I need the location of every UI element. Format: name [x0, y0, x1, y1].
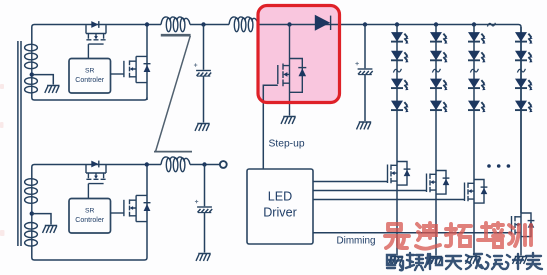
- main MOSFET Q2: [110, 56, 147, 82]
- highlight box border: [258, 6, 340, 103]
- wire tap to ground: [32, 214, 51, 225]
- wire node A down: [203, 25, 205, 123]
- node: T2 center tap: [30, 211, 34, 215]
- string MOSFET Q7: [427, 171, 450, 195]
- LED string 4: [515, 27, 533, 256]
- wire: stage1 bottom rail: [32, 93, 147, 100]
- string MOSFET Q9: [512, 213, 535, 237]
- ground (string 2): [428, 257, 443, 264]
- wire: boost rail to LED rail: [258, 25, 521, 214]
- wire: stage1 rail between inductors: [190, 24, 229, 26]
- output terminal: [220, 161, 227, 168]
- ground (T1 tap): [45, 86, 60, 93]
- svg-text:Dimming: Dimming: [337, 236, 376, 247]
- node: T1 center tap: [30, 72, 34, 76]
- wire: stage1 right vertical: [146, 25, 148, 101]
- svg-text:Step-up: Step-up: [269, 139, 305, 150]
- node on stage1 rail: [145, 22, 149, 26]
- LED driver U3: [247, 169, 313, 244]
- op-amp U1: SR Controller box: [69, 59, 111, 94]
- svg-text:Driver: Driver: [263, 206, 297, 220]
- wire: stage1 top rail: [32, 25, 161, 46]
- string MOSFET Q8: [465, 180, 488, 204]
- svg-text:SR: SR: [85, 208, 95, 215]
- highlight box fill (step-up cell): [258, 6, 340, 103]
- node A: [201, 22, 205, 26]
- body diode D4 on vertical: [144, 202, 151, 204]
- capacitor C3: [355, 62, 372, 75]
- step-up MOSFET Q5: [278, 25, 307, 116]
- watermark red text: [385, 223, 531, 249]
- wire: driver output 1: [313, 181, 388, 183]
- svg-text:SR: SR: [85, 68, 95, 75]
- wire: driver output 3: [313, 199, 465, 201]
- diode D5 (boost rectifier): [315, 15, 330, 31]
- LED string 3: [468, 22, 486, 255]
- transformer core (shared, two vertical bars): [18, 41, 21, 246]
- wire: dimming line: [313, 232, 512, 234]
- svg-text:LED: LED: [268, 190, 293, 204]
- wire node B down: [204, 165, 206, 253]
- break on LED rail: [487, 23, 495, 27]
- break mark Z between stages: [154, 35, 192, 151]
- wire: stage2 top rail: [32, 165, 161, 181]
- LED string 2: [430, 22, 448, 255]
- string MOSFET Q6: [388, 162, 411, 186]
- body diode D2 on vertical: [144, 63, 151, 65]
- transformer T2 secondary winding: [25, 179, 38, 246]
- wire: driver output 2: [313, 190, 427, 192]
- watermark navy text: [387, 253, 542, 270]
- wire: stage2 bottom rail and right vertical: [32, 165, 147, 261]
- wire tap to ground: [32, 75, 54, 85]
- node C: [363, 22, 367, 26]
- node B: [202, 162, 206, 166]
- SR rectifier MOSFET Q1 with inline diode D1: [86, 21, 106, 59]
- inductor L3: [161, 157, 190, 172]
- SR rectifier MOSFET Q3 with inline diode D3: [86, 161, 106, 199]
- ground (string 3): [466, 257, 481, 264]
- main MOSFET Q4: [110, 195, 147, 221]
- transformer T1 secondary winding: [25, 44, 38, 93]
- op-amp U2: SR Controller box: [69, 199, 111, 234]
- ground (Q5 source): [281, 117, 296, 124]
- ellipsis more strings: [487, 164, 510, 168]
- capacitor C2: [195, 200, 212, 213]
- ground (string 4): [513, 257, 528, 264]
- wire: Q5 gate to LED driver: [263, 85, 278, 169]
- LED string 1: [391, 22, 409, 255]
- ground (C3): [357, 122, 372, 129]
- inductor L1: [161, 17, 190, 32]
- faint edge artifacts: [0, 84, 5, 236]
- ground (C2): [196, 254, 211, 261]
- ground (C1): [195, 124, 210, 131]
- wire node C down: [364, 25, 366, 122]
- svg-text:Controler: Controler: [75, 217, 104, 224]
- svg-text:Controler: Controler: [75, 77, 104, 84]
- capacitor C1: [194, 63, 211, 76]
- wire: stage2 rail to terminal: [190, 164, 220, 166]
- ground (string 1): [389, 257, 404, 264]
- node: step-up drain: [287, 22, 291, 26]
- node on stage2 rail: [145, 162, 149, 166]
- inductor L2: [229, 17, 258, 32]
- ground (T2 tap): [43, 226, 58, 233]
